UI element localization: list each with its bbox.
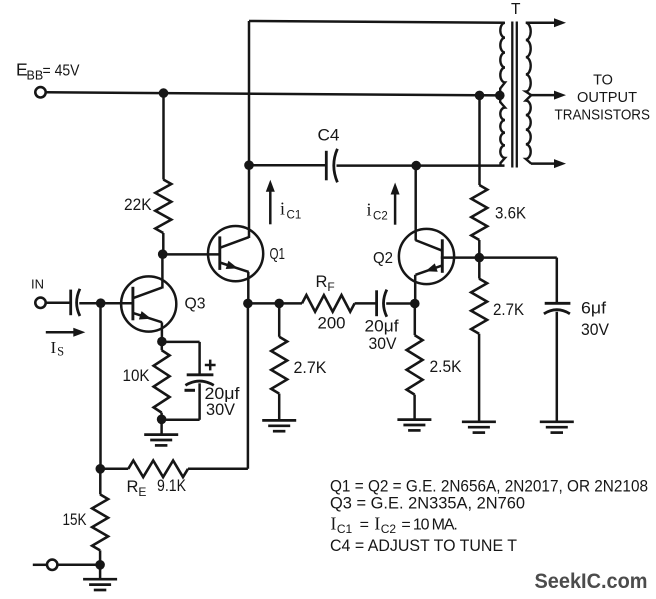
capacitor 6uF top plate	[545, 302, 571, 305]
wire 2.7K right top	[478, 258, 481, 279]
wire Q1 emitter drop	[247, 272, 250, 304]
wire R_E to riser	[188, 468, 248, 471]
svg-text:Q2: Q2	[373, 250, 393, 267]
wire 22K top	[162, 93, 165, 179]
wire cap to input node	[79, 302, 100, 305]
node R_E junction	[96, 464, 106, 474]
node E_BB / 3.6K tap	[475, 91, 485, 101]
wire Q3 emitter drop	[161, 322, 164, 341]
capacitor 20uF (Q3 bypass) curved plate	[185, 381, 213, 385]
label + polarity	[205, 364, 216, 367]
transformer T core	[511, 22, 513, 168]
wire 2.7K left bottom	[278, 394, 281, 420]
svg-text:C4 = ADJUST TO TUNE T: C4 = ADJUST TO TUNE T	[330, 536, 517, 555]
node C4 / Q1 collector junction	[244, 160, 254, 170]
ground below 2.7K right	[462, 420, 496, 423]
svg-text:22K: 22K	[124, 196, 152, 214]
wire input node drop	[99, 303, 102, 469]
wire 3.6K top	[478, 95, 481, 185]
node input junction	[96, 298, 106, 308]
node Q1 emitter / R_E junction	[243, 299, 253, 309]
capacitor C4 right plate (curved)	[334, 149, 338, 183]
svg-text:SeekIC.com: SeekIC.com	[535, 570, 648, 593]
svg-text:2.5K: 2.5K	[430, 358, 462, 376]
wire R_E left stub	[100, 468, 128, 471]
resistor R_E 9.1K	[128, 461, 188, 478]
svg-text:Q1: Q1	[270, 246, 286, 263]
capacitor C4 left plate	[325, 151, 328, 181]
transistor Q3	[121, 276, 176, 331]
wire E_BB rail	[45, 92, 500, 95]
wire 15K bottom	[99, 550, 102, 564]
wire Q2 base lead	[441, 256, 480, 259]
svg-text:30V: 30V	[369, 335, 397, 353]
capacitor input coupling left plate	[69, 290, 72, 316]
svg-text:TO: TO	[593, 73, 613, 89]
node 2.7K (left) top junction	[274, 299, 284, 309]
node Q2 base junction	[410, 299, 420, 309]
node E_BB / 22K junction	[159, 88, 169, 98]
wire secondary bottom output	[531, 162, 555, 165]
resistor 2.7K (right)	[471, 279, 487, 334]
arrow I_S	[46, 331, 75, 334]
wire secondary top output	[526, 22, 555, 25]
terminal bottom (ground reference)	[47, 560, 57, 570]
svg-text:20μf: 20μf	[365, 318, 399, 336]
node transformer primary center tap	[495, 91, 505, 101]
wire Q3 base lead	[101, 302, 134, 305]
svg-text:Q3: Q3	[185, 296, 206, 313]
wire 2.7K left top	[278, 303, 281, 336]
arrow secondary top output	[554, 18, 566, 27]
resistor 3.6K	[471, 185, 487, 240]
resistor 2.5K	[407, 335, 423, 395]
capacitor 6uF curved plate	[544, 310, 570, 314]
label - polarity	[185, 389, 196, 392]
resistor 2.7K (left)	[271, 337, 287, 394]
capacitor 20uF (Q3 bypass) top plate	[187, 373, 214, 376]
capacitor 20uF (interstage) left plate	[375, 290, 378, 316]
wire Q1 base lead	[163, 253, 220, 256]
ground below 10K	[160, 419, 163, 433]
svg-text:10K: 10K	[123, 367, 150, 385]
svg-text:3.6K: 3.6K	[495, 205, 526, 223]
wire 20uF to Q2 base node	[386, 302, 415, 305]
wire feedback left	[248, 302, 302, 305]
node 3.6K / 2.7K junction	[475, 253, 485, 263]
transistor Q1	[208, 226, 263, 281]
transformer T primary upper winding	[500, 23, 505, 96]
node Q3 collector / Q1 base junction	[158, 249, 168, 259]
wire 3.6K bottom	[478, 240, 481, 258]
svg-text:= 45V: = 45V	[43, 63, 80, 80]
svg-text:30V: 30V	[206, 401, 235, 419]
resistor 10K	[154, 350, 170, 412]
svg-text:15K: 15K	[63, 511, 87, 529]
wire 20uF branch top	[162, 341, 200, 344]
wire secondary middle output	[531, 94, 555, 97]
wire Q1 collector riser	[248, 21, 251, 238]
wire top rail (Q1 collector to transformer)	[249, 21, 505, 23]
wire 2.5K bottom	[413, 395, 416, 419]
wire 20uF branch bottom	[198, 383, 201, 420]
resistor 15K	[92, 494, 108, 550]
wire 15K top	[99, 469, 102, 495]
wire 10K top	[161, 342, 164, 351]
svg-text:BB: BB	[27, 69, 44, 83]
node 10K bottom junction	[157, 415, 167, 425]
svg-text:Q1 = Q2 = G.E. 2N656A, 2N2017: Q1 = Q2 = G.E. 2N656A, 2N2017, OR 2N2108	[330, 476, 648, 495]
ground below 2.5K	[397, 418, 431, 421]
resistor R_F 200	[302, 295, 355, 312]
wire Q3 collector riser	[161, 254, 164, 288]
node Q2 collector / C4 line junction	[411, 161, 421, 171]
arrow current i_C1	[269, 191, 272, 225]
capacitor 20uF (interstage) right plate (curved)	[384, 290, 387, 317]
capacitor input coupling right plate (curved)	[77, 289, 80, 316]
svg-text:TRANSISTORS: TRANSISTORS	[555, 108, 651, 124]
wire bottom terminal to node	[57, 564, 100, 567]
transformer T secondary lower winding	[526, 95, 531, 164]
svg-text:T: T	[511, 1, 521, 18]
wire 6uF branch horizontal	[479, 256, 557, 259]
node Q3 emitter / 10K top junction	[157, 337, 167, 347]
wire C4 left segment	[249, 164, 326, 167]
ground below bottom node	[99, 565, 102, 579]
wire Q2 emitter drop	[414, 275, 417, 304]
wire C4 right segment to transformer	[337, 164, 505, 167]
wire 2.7K right bottom	[478, 334, 481, 421]
wire 6uF bottom	[556, 312, 559, 421]
svg-text:2.7K: 2.7K	[294, 359, 327, 377]
wire 6uF branch down	[556, 258, 559, 304]
ground below 6uF	[540, 420, 574, 423]
svg-text:200: 200	[318, 315, 346, 333]
arrow current i_C2	[394, 193, 397, 225]
svg-text:2.7K: 2.7K	[493, 301, 524, 319]
transformer T primary lower winding	[500, 95, 505, 165]
svg-text:C4: C4	[318, 126, 340, 145]
ground below 2.7K left	[262, 419, 296, 422]
wire R_E riser to Q1 emitter node	[247, 303, 250, 468]
svg-text:30V: 30V	[581, 321, 609, 339]
wire bottom terminal dash	[33, 564, 47, 567]
terminal E_BB input	[35, 87, 45, 97]
wire 2.5K top	[414, 304, 417, 336]
svg-text:OUTPUT: OUTPUT	[577, 90, 637, 106]
wire IN to cap	[45, 302, 71, 305]
wire Q2 collector riser	[414, 166, 417, 241]
wire 22K bottom	[162, 233, 165, 254]
resistor 22K	[155, 180, 171, 234]
svg-text:IN: IN	[31, 277, 44, 292]
node bottom terminal junction	[95, 560, 105, 570]
svg-text:6μf: 6μf	[581, 300, 606, 318]
transistor Q2	[399, 229, 454, 284]
wire R_F to 20uF	[355, 302, 377, 305]
arrow secondary middle output	[554, 91, 566, 100]
arrow secondary bottom output	[554, 159, 566, 168]
svg-text:9.1K: 9.1K	[157, 477, 186, 495]
wire 10K bottom	[160, 413, 163, 420]
svg-text:Q3 = G.E. 2N335A, 2N760: Q3 = G.E. 2N335A, 2N760	[330, 494, 525, 513]
terminal IN	[35, 298, 45, 308]
transformer T secondary upper winding	[526, 23, 531, 95]
